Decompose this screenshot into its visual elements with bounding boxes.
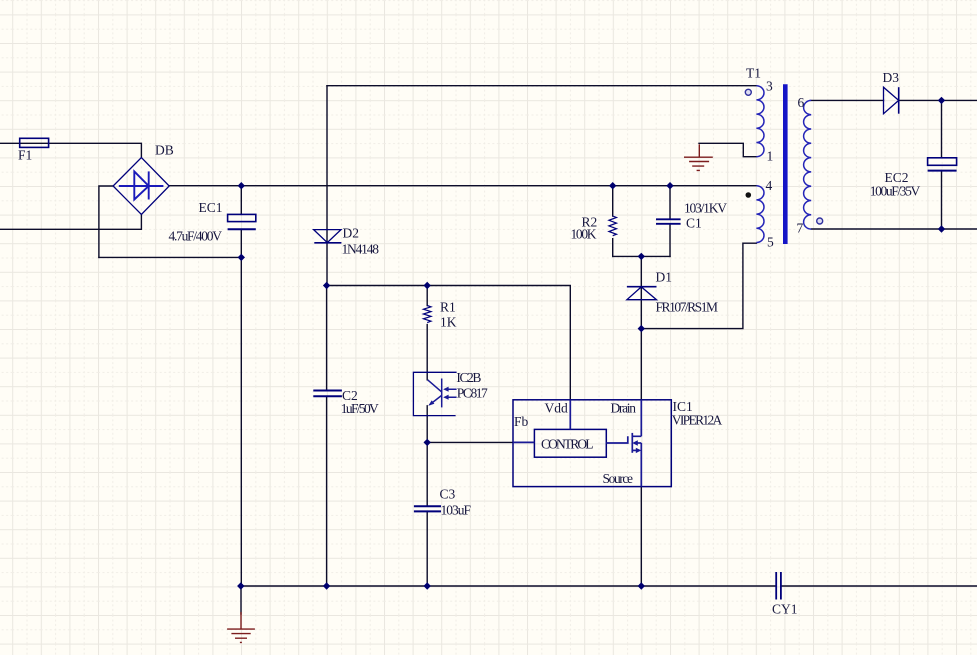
svg-text:T1: T1 [746, 66, 761, 81]
svg-text:C1: C1 [686, 216, 702, 231]
svg-text:PC817: PC817 [457, 386, 488, 401]
svg-text:Fb: Fb [514, 414, 529, 429]
svg-text:1N4148: 1N4148 [342, 242, 380, 257]
svg-text:F1: F1 [18, 148, 32, 163]
svg-text:C3: C3 [440, 487, 456, 502]
svg-text:6: 6 [798, 95, 805, 110]
svg-text:103/1KV: 103/1KV [684, 201, 727, 216]
svg-text:D1: D1 [656, 270, 673, 285]
svg-text:VIPER12A: VIPER12A [672, 413, 723, 428]
svg-text:3: 3 [766, 79, 773, 94]
svg-text:Drain: Drain [611, 401, 637, 416]
svg-text:1K: 1K [440, 315, 457, 330]
svg-text:CY1: CY1 [772, 602, 798, 617]
svg-text:4: 4 [766, 178, 773, 193]
svg-text:1: 1 [767, 149, 774, 164]
svg-text:D2: D2 [343, 226, 360, 241]
svg-text:D3: D3 [883, 70, 900, 85]
svg-text:Source: Source [603, 471, 634, 486]
svg-text:Vdd: Vdd [545, 401, 568, 416]
svg-text:1uF/50V: 1uF/50V [341, 401, 379, 416]
svg-text:100K: 100K [571, 227, 597, 242]
svg-text:DB: DB [155, 143, 174, 158]
svg-text:100uF/35V: 100uF/35V [870, 183, 921, 198]
svg-text:4.7uF/400V: 4.7uF/400V [169, 229, 223, 244]
svg-text:FR107/RS1M: FR107/RS1M [656, 300, 719, 315]
svg-text:EC1: EC1 [199, 200, 223, 215]
svg-text:103uF: 103uF [441, 503, 472, 518]
svg-text:IC2B: IC2B [456, 370, 481, 385]
svg-text:5: 5 [767, 235, 774, 250]
svg-text:7: 7 [797, 221, 804, 236]
svg-text:CONTROL: CONTROL [541, 437, 594, 452]
svg-text:R1: R1 [440, 300, 456, 315]
